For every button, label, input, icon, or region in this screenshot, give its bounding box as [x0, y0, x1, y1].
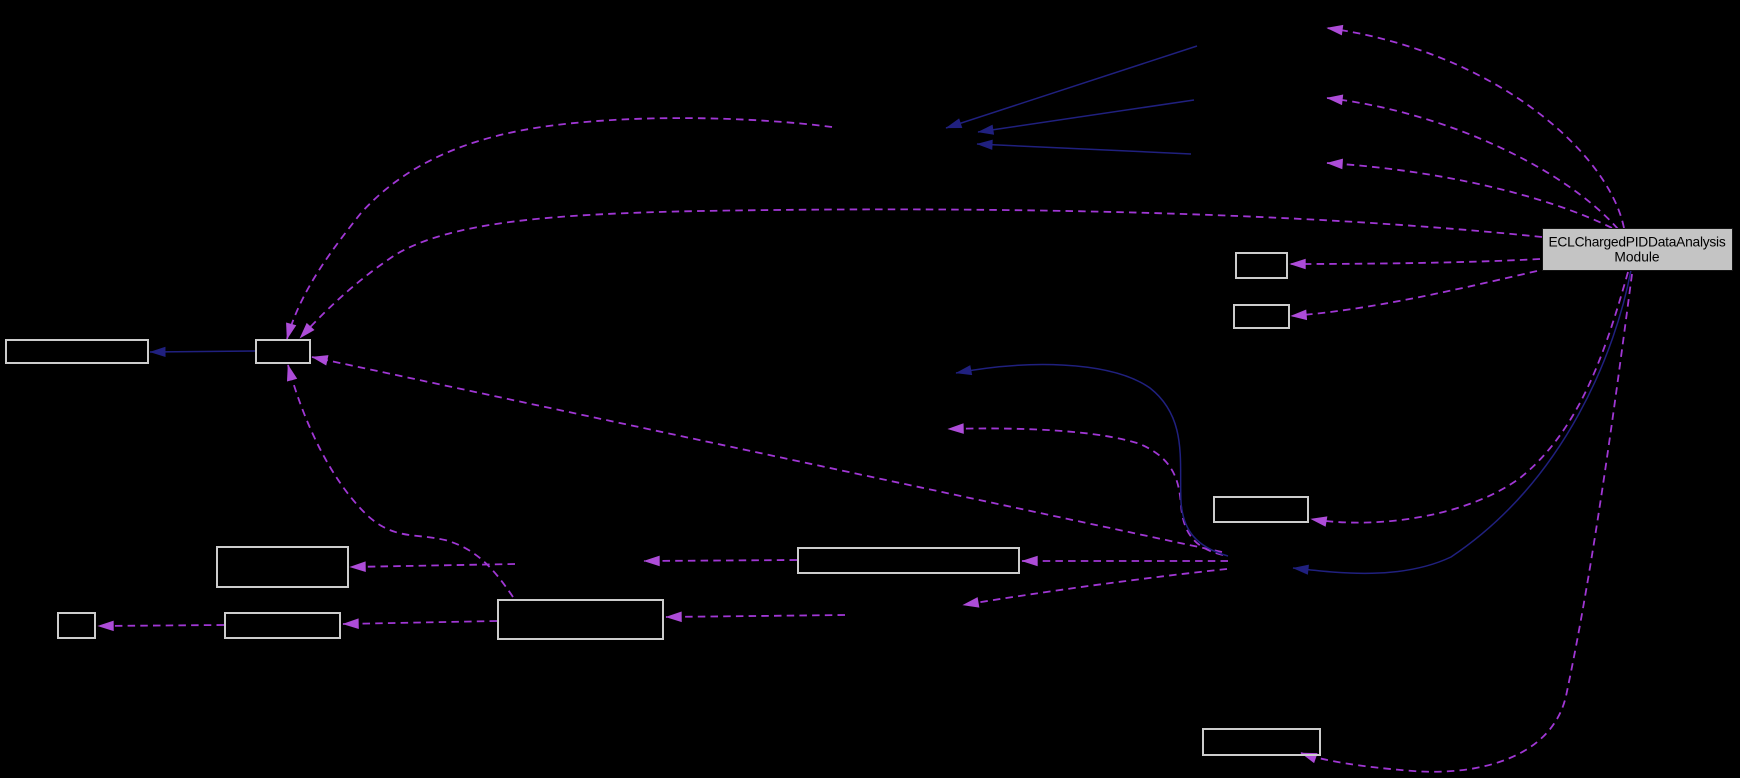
- svg-text:ECLChargedPIDDataAnalysis: ECLChargedPIDDataAnalysis: [1548, 235, 1725, 250]
- svg-text:Module: Module: [1614, 250, 1660, 265]
